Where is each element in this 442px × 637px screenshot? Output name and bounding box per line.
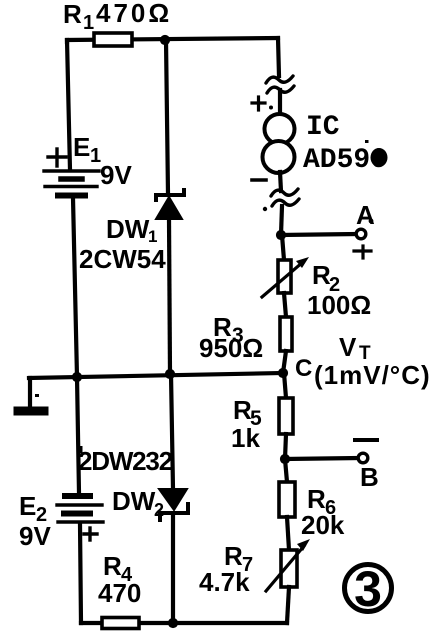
svg-text:1: 1 (83, 12, 94, 34)
potentiometer R7 arrow (266, 539, 310, 591)
wire: node A horizontal lead (281, 234, 356, 235)
wire: left branch from top rail down to battery E1 (67, 40, 70, 170)
label minus at terminal B (355, 438, 377, 442)
junction: node C (278, 368, 288, 378)
resistor R6 (279, 482, 295, 517)
svg-text:E: E (19, 491, 36, 521)
terminal B (open circle) (358, 453, 368, 463)
label E2 (19, 491, 47, 526)
svg-text:1k: 1k (231, 423, 260, 453)
break squiggle above IC (266, 76, 294, 93)
label E1 (73, 132, 101, 167)
label plus at terminal A (354, 246, 371, 258)
resistor R5 (279, 398, 293, 434)
zener diode DW2 cathode triangle (159, 489, 187, 510)
wire: ground rail from ground symbol to node C (29, 373, 283, 378)
wire: left branch ground rail to battery E2 (77, 377, 79, 493)
svg-text:4.7k: 4.7k (199, 567, 250, 597)
wire: R7 to bottom rail (287, 587, 289, 623)
svg-text:470Ω: 470Ω (96, 0, 172, 28)
wire: R3 to node C (283, 351, 286, 373)
wire: lower break to node A junction (281, 206, 282, 235)
resistor R1 (in top rail) (94, 33, 132, 46)
wire: IC bottom to lower break (280, 172, 281, 191)
svg-text:DW: DW (106, 214, 150, 244)
label plus at IC top (252, 97, 265, 110)
label VT (339, 332, 371, 364)
wire: node B horizontal lead (285, 458, 358, 459)
svg-text:(1mV/°C): (1mV/°C) (314, 360, 431, 390)
svg-text:3: 3 (354, 561, 382, 617)
scan speck near A terminal (369, 219, 374, 224)
svg-text:100Ω: 100Ω (307, 290, 371, 320)
label E2 plus sign (84, 528, 97, 540)
wire: DW1 anode down to ground rail (169, 219, 170, 374)
scan speck near upper break (269, 106, 273, 110)
wire: top horizontal rail from E1 branch to right branch (67, 38, 278, 42)
wire: node B junction to R6 (285, 459, 287, 482)
battery E1 (44, 171, 99, 196)
ground symbol (18, 378, 44, 411)
wire: right branch top corner down to break (278, 38, 279, 76)
battery E2 (57, 496, 103, 522)
junction: ground rail / DW branch (165, 369, 175, 379)
svg-text:V: V (339, 332, 357, 362)
zener diode DW1 anode triangle (156, 197, 182, 219)
svg-text:DW: DW (112, 486, 156, 516)
svg-text:9V: 9V (100, 160, 132, 190)
svg-text:2CW54: 2CW54 (79, 244, 166, 274)
wire: bottom rail (81, 621, 287, 625)
junction: bottom rail / DW branch (168, 618, 178, 628)
wire: DW branch ground rail to zener DW2 (171, 374, 173, 489)
potentiometer R2 body (278, 260, 291, 293)
label E1 plus sign (48, 149, 66, 166)
resistor R3 (280, 317, 292, 351)
wire: left branch battery E2 to bottom rail (80, 524, 81, 623)
label R6 (307, 484, 336, 519)
svg-text:IC: IC (306, 112, 340, 143)
label DW2 (112, 486, 164, 520)
scan speck near AD590 (365, 140, 369, 143)
zener diode DW2 cathode bar (160, 504, 188, 520)
svg-text:9V: 9V (19, 521, 51, 551)
junction: ground rail / E1-E2 branch (72, 372, 82, 382)
label R7 (224, 541, 253, 576)
potentiometer R2 arrow (262, 257, 309, 297)
junction: node A tap (276, 230, 286, 240)
scan speck near ground (35, 394, 39, 397)
junction: node B tap (280, 454, 290, 464)
break squiggle below IC (271, 189, 299, 206)
wire: R2 to R3 (284, 293, 286, 317)
svg-text:C: C (295, 355, 312, 382)
svg-text:E: E (73, 132, 90, 162)
potentiometer R7 body (281, 550, 297, 587)
label R5 (233, 395, 262, 430)
scan speck above 2DW232 (79, 446, 83, 453)
svg-text:R: R (103, 551, 122, 581)
wire: R5 to node B junction (285, 434, 286, 459)
wire: break to IC top (278, 90, 282, 115)
svg-text:20k: 20k (301, 510, 345, 540)
label R2 (312, 260, 340, 296)
figure number 3 (circled) (345, 561, 392, 617)
wire: node C to R5 (284, 373, 286, 398)
svg-text:2DW232: 2DW232 (78, 446, 173, 476)
scan speck left of lower break (263, 207, 267, 211)
zener diode DW1 (2CW54) cathode bar (156, 190, 184, 200)
resistor R4 (in bottom rail) (102, 618, 139, 629)
wire: node A junction to R2 (282, 235, 284, 260)
wire: DW1 branch from top junction down to zener (166, 40, 168, 194)
svg-text:R: R (63, 0, 82, 29)
label minus at IC bottom (252, 178, 266, 182)
junction: top rail / DW1 branch (160, 35, 170, 45)
wire: DW2 to bottom rail (171, 514, 175, 623)
svg-text:B: B (360, 462, 379, 492)
current source U1 IC AD590 (two-circle symbol) (263, 114, 295, 173)
svg-text:470: 470 (98, 578, 141, 608)
svg-text:2: 2 (154, 500, 164, 520)
svg-text:950Ω: 950Ω (199, 333, 263, 363)
terminal A (open circle) (356, 229, 366, 239)
label R4 (103, 551, 133, 586)
label DW1 (106, 214, 157, 246)
wire: R6 to R7 (287, 517, 289, 550)
svg-text:A: A (356, 200, 375, 230)
label R3 (213, 312, 244, 347)
label R1 (63, 0, 94, 34)
wire: left branch battery E1 to ground rail (73, 198, 77, 377)
